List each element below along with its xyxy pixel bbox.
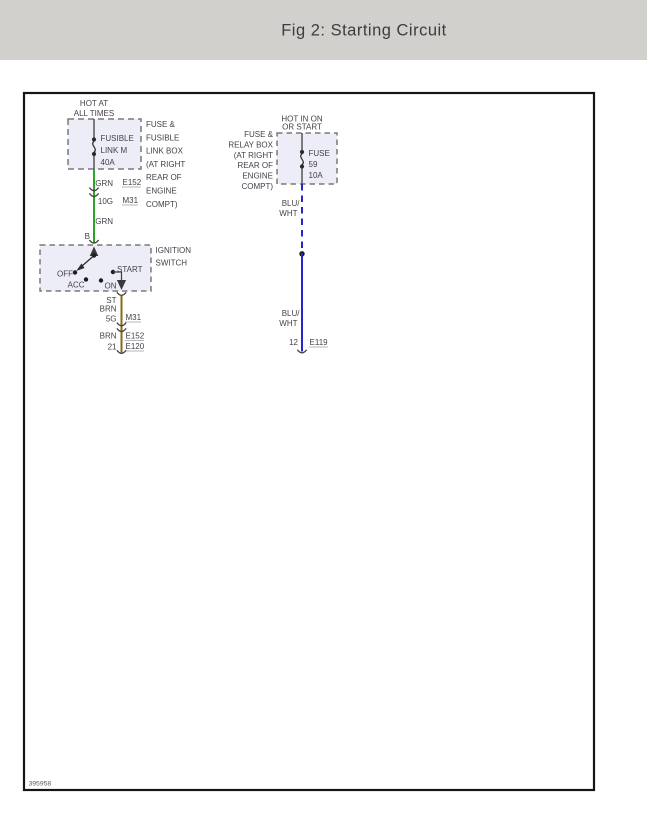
svg-text:E120: E120 [126,342,145,351]
wire feed into fusible link [93,119,95,139]
wire START contact to pin ST [113,272,122,281]
svg-text:59: 59 [309,160,318,169]
fuse & fusible link box [68,119,141,169]
svg-text:(AT RIGHT: (AT RIGHT [234,151,273,160]
svg-text:LINK M: LINK M [101,146,128,155]
svg-text:10A: 10A [309,171,324,180]
svg-text:ALL TIMES: ALL TIMES [74,109,114,118]
svg-text:RELAY BOX: RELAY BOX [228,140,273,149]
wire BLU/WHT dashed segment [301,184,303,253]
svg-text:FUSE: FUSE [309,149,330,158]
svg-text:12: 12 [289,338,298,347]
splice on BLU/WHT [299,251,304,256]
svg-text:395958: 395958 [29,781,52,788]
svg-text:ON: ON [105,282,117,291]
svg-text:FUSE &: FUSE & [146,120,176,129]
svg-text:BRN: BRN [100,332,117,341]
svg-text:21: 21 [108,343,117,352]
svg-text:GRN: GRN [95,217,113,226]
wire GRN fusible link to ignition switch [93,169,95,244]
fusible link M 40A [92,137,96,156]
fuse & relay box [277,133,337,184]
svg-text:40A: 40A [101,158,116,167]
fuse 59 10A [300,150,304,169]
svg-text:M31: M31 [126,313,142,322]
wire BRN ignition to IPDM pin 21 [121,296,123,353]
svg-text:WHT: WHT [279,209,297,218]
svg-text:REAR OF: REAR OF [237,161,273,170]
svg-text:GRN: GRN [95,179,113,188]
ignition switch SW1 contacts [90,247,99,257]
svg-text:Fig 2: Starting Circuit: Fig 2: Starting Circuit [281,22,447,40]
svg-text:WHT: WHT [279,319,297,328]
svg-text:(AT RIGHT: (AT RIGHT [146,160,185,169]
ignition switch box [40,245,151,291]
svg-text:5G: 5G [106,315,117,324]
svg-text:B: B [85,232,90,241]
svg-text:COMPT): COMPT) [241,182,273,191]
svg-text:OFF: OFF [57,270,73,279]
svg-text:IGNITION: IGNITION [156,246,192,255]
svg-text:BLU/: BLU/ [282,199,301,208]
svg-text:10G: 10G [98,197,113,206]
svg-text:FUSIBLE: FUSIBLE [101,134,134,143]
svg-text:E152: E152 [126,332,145,341]
svg-text:ENGINE: ENGINE [242,172,273,181]
svg-text:ACC: ACC [68,281,85,290]
svg-text:START: START [117,265,143,274]
svg-text:COMPT): COMPT) [146,200,178,209]
header band [0,0,647,60]
svg-text:E119: E119 [310,338,329,347]
svg-text:BRN: BRN [100,305,117,314]
svg-text:REAR OF: REAR OF [146,173,182,182]
svg-text:FUSIBLE: FUSIBLE [146,133,179,142]
wire feed into fuse 59 [301,133,303,151]
svg-text:FUSE &: FUSE & [244,130,274,139]
svg-text:E152: E152 [123,178,142,187]
svg-text:ENGINE: ENGINE [146,187,177,196]
svg-text:LINK BOX: LINK BOX [146,147,184,156]
svg-text:M31: M31 [123,196,139,205]
diagram outer border [24,93,594,790]
svg-text:BLU/: BLU/ [282,309,301,318]
wire BLU/WHT solid segment to IPDM pin 12 [301,253,303,352]
svg-text:SWITCH: SWITCH [156,259,188,268]
svg-text:OR START: OR START [282,123,322,132]
svg-text:HOT AT: HOT AT [80,99,108,108]
